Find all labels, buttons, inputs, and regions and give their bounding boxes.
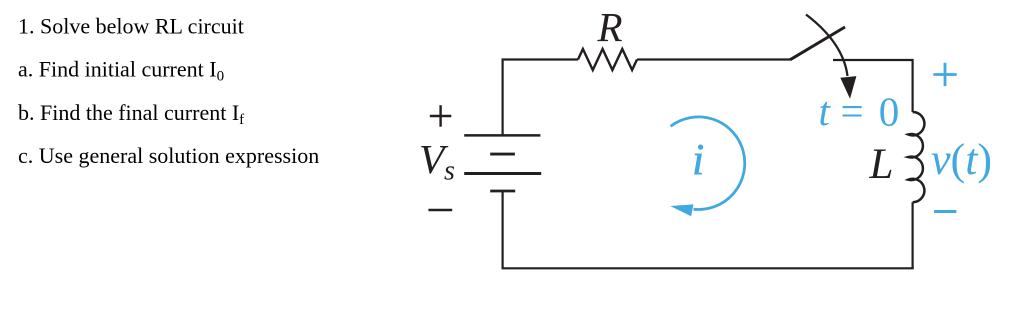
svg-text:0: 0 (879, 89, 900, 135)
inductor L coils (908, 112, 924, 202)
label + of v(t) (blue) (933, 63, 956, 86)
svg-text:c. Use general solution expres: c. Use general solution expression (18, 143, 319, 168)
label − of v(t) (blue) (934, 210, 956, 213)
current loop arc i (671, 117, 745, 210)
wire: top middle segment (637, 58, 790, 60)
svg-text:v(t): v(t) (931, 135, 992, 184)
svg-text:1. Solve below RL circuit: 1. Solve below RL circuit (18, 14, 244, 39)
svg-text:i: i (692, 135, 704, 184)
wire: right vertical bottom (911, 202, 913, 268)
resistor R zigzag (578, 49, 637, 70)
svg-text:=: = (841, 88, 864, 134)
wire: top right segment (833, 60, 913, 112)
svg-text:R: R (597, 4, 623, 50)
label − of Vs (428, 209, 452, 211)
battery short plate 2 (490, 190, 515, 193)
svg-text:s: s (444, 156, 455, 187)
svg-text:a. Find initial current I0: a. Find initial current I0 (18, 57, 224, 85)
battery long plate 2 (464, 172, 541, 175)
wire: battery top lead (502, 60, 504, 136)
svg-text:L: L (869, 141, 894, 188)
battery Vs (464, 135, 541, 191)
svg-text:t: t (819, 88, 832, 134)
battery long plate 1 (464, 134, 540, 137)
battery short plate 1 (490, 153, 515, 156)
switch blade (790, 27, 845, 60)
switch arrow head (840, 76, 856, 99)
svg-text:b. Find the final current If: b. Find the final current If (18, 100, 244, 128)
current loop arrow head (670, 204, 693, 216)
switch closing arc (806, 15, 848, 77)
wire: battery bottom lead (502, 191, 504, 268)
wire: top left segment (502, 58, 579, 60)
wire: bottom (502, 267, 914, 269)
label + of Vs (430, 105, 452, 127)
